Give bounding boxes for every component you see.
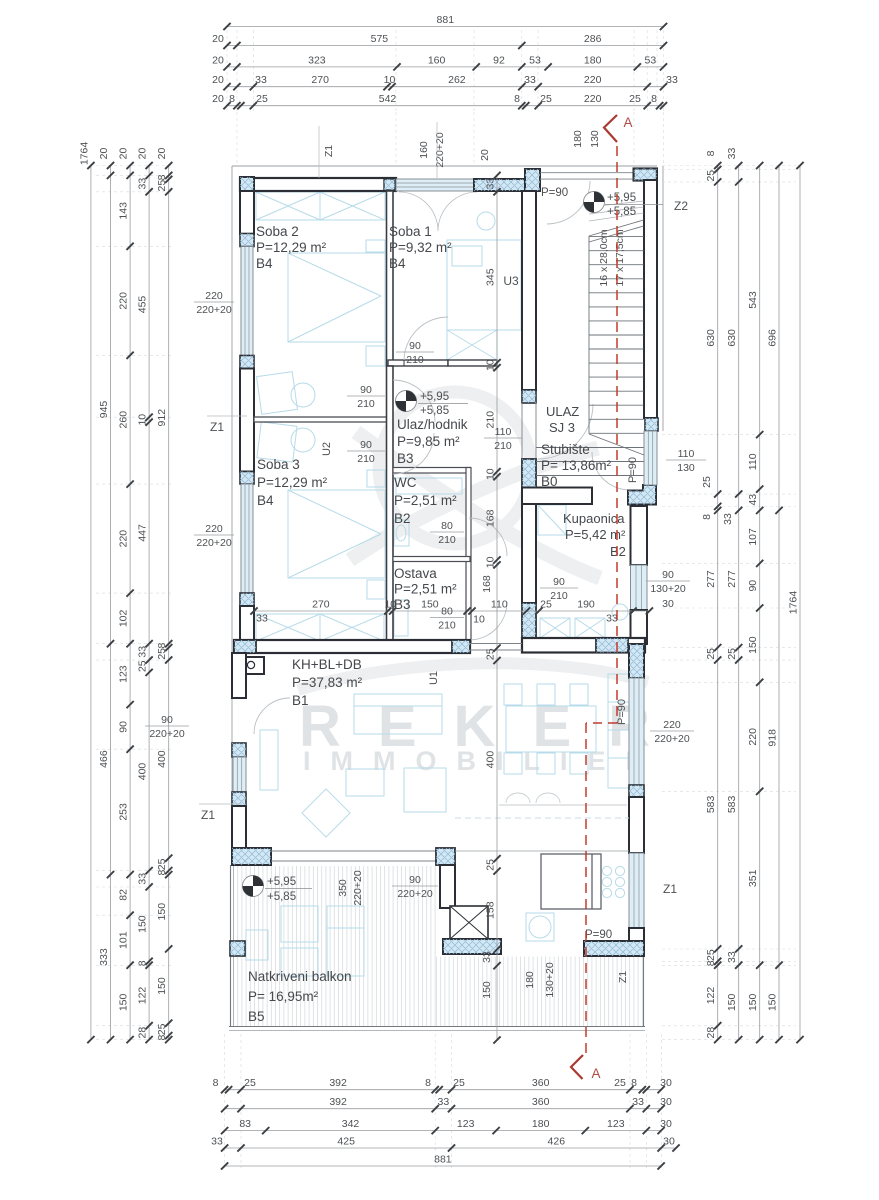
svg-text:+5,95: +5,95: [267, 876, 296, 888]
svg-text:30: 30: [660, 1096, 672, 1108]
terrace header line: [455, 850, 629, 852]
top wall soba2 north: [240, 178, 396, 191]
dimension chain bottom row2: [221, 1096, 672, 1112]
corridor opening U1 threshold: [470, 643, 522, 645]
dining table and chairs: [504, 684, 596, 774]
kupaonica fixtures: [538, 505, 628, 638]
svg-text:150: 150: [118, 993, 130, 1011]
window Z1 160 top soba1: [396, 179, 474, 191]
stair NE corner block: [634, 169, 657, 181]
svg-text:180: 180: [584, 54, 602, 66]
svg-text:B1: B1: [292, 693, 309, 708]
stair door arc into stair: [538, 404, 593, 459]
stair door threshold: [521, 403, 523, 459]
svg-text:447: 447: [137, 524, 149, 542]
dimension chain left col3: [118, 148, 134, 1044]
east wall living lower: [629, 797, 644, 853]
svg-text:25: 25: [156, 1023, 168, 1035]
soba2 armchairs: [257, 372, 315, 415]
svg-text:400: 400: [156, 750, 168, 768]
svg-text:8: 8: [701, 514, 713, 520]
soba2 door arc: [393, 380, 435, 422]
soba3 wardrobe bottom: [256, 614, 384, 641]
svg-text:Natkriveni balkon: Natkriveni balkon: [248, 969, 352, 984]
svg-text:53: 53: [645, 54, 657, 66]
svg-text:210: 210: [357, 453, 375, 465]
svg-text:U2: U2: [321, 442, 333, 456]
svg-text:Z2: Z2: [674, 199, 688, 213]
svg-text:8: 8: [156, 1035, 168, 1041]
svg-text:Soba 1: Soba 1: [389, 224, 432, 239]
balcony deck hatch: [234, 866, 643, 1026]
living sofa: [346, 694, 446, 812]
svg-text:A: A: [591, 1066, 600, 1081]
svg-text:90: 90: [360, 439, 372, 451]
svg-text:168: 168: [481, 575, 493, 593]
svg-text:270: 270: [311, 74, 329, 86]
svg-text:P=37,83 m²: P=37,83 m²: [292, 675, 363, 690]
svg-text:92: 92: [493, 54, 505, 66]
west wall block below soba2 window: [240, 356, 254, 369]
svg-text:130: 130: [677, 462, 695, 474]
svg-text:20: 20: [118, 148, 130, 160]
dimension chain top row5: [212, 93, 667, 109]
east wall living bottom piece: [629, 928, 644, 941]
svg-text:P=90: P=90: [616, 699, 628, 725]
svg-text:20: 20: [98, 148, 110, 160]
wc ostava east wall: [466, 468, 471, 644]
svg-text:25: 25: [485, 648, 497, 660]
svg-text:345: 345: [485, 268, 497, 286]
svg-text:20: 20: [212, 93, 224, 105]
svg-text:260: 260: [118, 411, 130, 429]
svg-text:Ostava: Ostava: [394, 566, 437, 581]
extension lines right: [662, 166, 796, 1040]
svg-text:10: 10: [473, 614, 485, 626]
svg-text:ULAZ: ULAZ: [546, 404, 579, 419]
soba1 bed: [447, 212, 521, 330]
kupaonica west wall: [522, 504, 536, 603]
stair south band to kupaonica: [522, 488, 592, 505]
svg-text:123: 123: [607, 1118, 625, 1130]
soba1 door arc: [404, 317, 448, 361]
balcony sliding door sill: [271, 850, 436, 852]
soba3 bed: [288, 470, 385, 599]
balcony jut x-brace box: [450, 906, 488, 939]
svg-text:P=2,51 m²: P=2,51 m²: [394, 493, 457, 508]
svg-text:881: 881: [437, 14, 455, 26]
living west wall block1: [232, 743, 246, 757]
svg-text:90: 90: [409, 874, 421, 886]
svg-text:+5,95: +5,95: [420, 391, 449, 403]
svg-text:Z1: Z1: [210, 420, 224, 434]
svg-text:918: 918: [767, 729, 779, 747]
svg-text:B4: B4: [256, 256, 273, 271]
svg-text:455: 455: [137, 296, 149, 314]
extension lines top: [227, 30, 664, 163]
svg-text:Z1: Z1: [663, 882, 677, 896]
dimension chain bottom row5 total 881: [221, 1154, 665, 1170]
svg-text:143: 143: [118, 202, 130, 220]
dimension chain top row2: [212, 33, 667, 49]
svg-text:+5,85: +5,85: [607, 206, 636, 218]
svg-text:B4: B4: [257, 493, 274, 508]
west wall block above soba3 window: [240, 472, 254, 485]
svg-text:33: 33: [255, 74, 267, 86]
west wall solid top: [240, 191, 254, 234]
svg-text:150: 150: [156, 903, 168, 921]
east window 220 living: [629, 678, 644, 785]
balcony outline: [229, 865, 645, 1031]
svg-text:210: 210: [438, 620, 456, 632]
svg-text:583: 583: [726, 795, 738, 813]
svg-text:123: 123: [457, 1118, 475, 1130]
svg-text:25: 25: [614, 1077, 626, 1089]
svg-text:102: 102: [118, 609, 130, 627]
svg-text:33: 33: [256, 613, 268, 625]
svg-text:25: 25: [701, 476, 713, 488]
svg-text:696: 696: [767, 329, 779, 347]
dimension chain top row3: [212, 54, 667, 70]
svg-text:466: 466: [98, 750, 110, 768]
soba3 door arc: [393, 433, 434, 474]
interior chain horizontal y611: [250, 599, 653, 626]
svg-text:110: 110: [678, 448, 695, 460]
svg-text:1764: 1764: [78, 142, 90, 166]
svg-text:28: 28: [705, 1027, 717, 1039]
stair break line: [589, 226, 644, 242]
svg-text:U1: U1: [428, 671, 440, 685]
kitchen bar chairs circles: [602, 866, 624, 897]
svg-text:150: 150: [747, 993, 759, 1011]
svg-text:122: 122: [137, 987, 149, 1005]
dimension chain left col4: [137, 148, 153, 1044]
svg-text:P=12,29 m²: P=12,29 m²: [257, 475, 328, 490]
roof eave line left: [231, 166, 233, 848]
svg-text:575: 575: [371, 33, 389, 45]
svg-text:P= 16,95m²: P= 16,95m²: [248, 989, 319, 1004]
svg-text:20: 20: [212, 74, 224, 86]
stair upper flight lines: [589, 201, 644, 207]
wall wc block west side: [387, 366, 394, 643]
balcony south band east with door: [584, 941, 644, 956]
svg-text:25: 25: [453, 1077, 465, 1089]
roof eave line top: [232, 165, 657, 167]
svg-text:150: 150: [421, 599, 439, 611]
svg-text:25: 25: [256, 93, 268, 105]
terrace round table: [526, 913, 554, 941]
svg-text:10: 10: [485, 359, 497, 371]
soba3 armchairs: [257, 422, 315, 462]
svg-text:25: 25: [705, 949, 717, 961]
svg-text:158: 158: [485, 901, 497, 919]
soba1 south wall east part: [448, 360, 497, 366]
svg-text:220: 220: [663, 719, 681, 731]
kupaonica door arc: [592, 452, 630, 490]
svg-text:30: 30: [663, 1136, 675, 1148]
wc north wall: [393, 468, 470, 474]
svg-text:P=90: P=90: [627, 457, 639, 483]
svg-text:+5,95: +5,95: [607, 192, 636, 204]
svg-text:110: 110: [747, 453, 759, 470]
east wall small block: [629, 785, 644, 797]
dimension chain right col1: [701, 150, 721, 1043]
svg-text:33: 33: [726, 951, 738, 963]
svg-text:190: 190: [577, 599, 595, 611]
west wall block below soba3 window: [240, 593, 254, 606]
svg-text:101: 101: [118, 931, 130, 949]
svg-text:33: 33: [438, 1096, 450, 1108]
svg-text:150: 150: [481, 981, 493, 999]
wc ostava separator wall: [393, 557, 470, 562]
svg-text:P=12,29 m²: P=12,29 m²: [256, 240, 327, 255]
svg-text:16 x 28,0cm: 16 x 28,0cm: [598, 229, 610, 286]
ostava shelf: [394, 600, 408, 636]
svg-text:33: 33: [722, 513, 734, 525]
extension lines left: [96, 166, 172, 1040]
svg-text:8: 8: [156, 870, 168, 876]
svg-text:168: 168: [485, 509, 497, 527]
svg-text:30: 30: [660, 1077, 672, 1089]
svg-text:25: 25: [244, 1077, 256, 1089]
svg-text:8: 8: [156, 643, 168, 649]
svg-text:20: 20: [212, 33, 224, 45]
dimension chain left col5: [156, 148, 172, 1044]
svg-text:80: 80: [441, 606, 453, 618]
svg-text:400: 400: [485, 751, 497, 769]
svg-text:30: 30: [662, 598, 674, 610]
svg-text:881: 881: [434, 1154, 452, 1166]
svg-text:33: 33: [666, 74, 678, 86]
svg-text:8: 8: [705, 150, 717, 156]
top wall hatched band east of window: [474, 179, 525, 191]
svg-text:20: 20: [479, 149, 491, 161]
svg-text:25: 25: [137, 660, 149, 672]
kitchen island: [541, 854, 601, 909]
roof eave line right: [662, 166, 664, 431]
soba1 south wall: [388, 360, 448, 366]
svg-text:583: 583: [705, 795, 717, 813]
living south wall block SW: [232, 848, 271, 865]
svg-text:277: 277: [705, 570, 717, 588]
svg-text:150: 150: [747, 636, 759, 654]
kupaonica east wall lower: [631, 610, 648, 644]
svg-text:210: 210: [406, 354, 424, 366]
svg-text:10: 10: [485, 468, 497, 480]
balcony jut foot block: [443, 939, 501, 954]
svg-text:33: 33: [137, 178, 149, 190]
kupaonica east wall upper: [631, 506, 648, 565]
svg-text:220+20: 220+20: [196, 304, 231, 316]
svg-text:90: 90: [360, 384, 372, 396]
dimension chain right col5 total 1764: [788, 162, 804, 1043]
svg-text:10: 10: [384, 74, 396, 86]
svg-text:180: 180: [572, 130, 584, 148]
extension lines bottom: [225, 1034, 662, 1168]
svg-text:Ulaz/hodnik: Ulaz/hodnik: [397, 417, 468, 432]
svg-text:130+20: 130+20: [544, 962, 556, 997]
svg-text:25: 25: [485, 859, 497, 871]
dimension chain right col3: [747, 162, 763, 1043]
soba1 wardrobe: [447, 330, 497, 360]
terrace roof dashed line: [455, 817, 629, 819]
svg-text:150: 150: [726, 993, 738, 1011]
svg-text:33: 33: [726, 148, 738, 160]
svg-text:220: 220: [118, 530, 130, 548]
svg-text:P=2,51 m²: P=2,51 m²: [394, 582, 457, 597]
dimension chain right col4: [767, 162, 783, 1043]
svg-text:542: 542: [379, 93, 397, 105]
svg-text:630: 630: [705, 329, 717, 347]
svg-text:150: 150: [156, 977, 168, 995]
living west wall block2: [232, 792, 246, 806]
svg-text:8: 8: [213, 1077, 219, 1089]
svg-text:KH+BL+DB: KH+BL+DB: [292, 657, 362, 672]
svg-text:400: 400: [137, 763, 149, 781]
casement arcs soba1 window: [399, 192, 477, 231]
svg-text:P=90: P=90: [541, 187, 568, 199]
svg-text:Soba 2: Soba 2: [256, 224, 299, 239]
svg-text:220+20: 220+20: [654, 733, 689, 745]
svg-text:33: 33: [137, 873, 149, 885]
elevation marker hallway: [396, 391, 417, 412]
svg-text:253: 253: [118, 803, 130, 821]
svg-text:43: 43: [747, 494, 759, 506]
svg-text:912: 912: [156, 409, 168, 427]
svg-text:Z1: Z1: [323, 145, 335, 157]
stair east window 110: [644, 431, 657, 485]
svg-text:25: 25: [629, 93, 641, 105]
svg-text:U3: U3: [503, 274, 519, 288]
stair east wall: [644, 180, 657, 418]
svg-text:90: 90: [161, 714, 173, 726]
soba2 bed: [288, 240, 385, 366]
svg-text:90: 90: [747, 580, 759, 592]
svg-text:25: 25: [726, 648, 738, 660]
svg-text:543: 543: [747, 291, 759, 309]
svg-text:8: 8: [631, 1077, 637, 1089]
svg-text:P= 13,86m²: P= 13,86m²: [541, 458, 612, 473]
svg-text:360: 360: [532, 1077, 550, 1089]
svg-text:8: 8: [705, 960, 717, 966]
svg-text:277: 277: [726, 570, 738, 588]
svg-text:83: 83: [239, 1118, 251, 1130]
west wall upper piece with corner: [240, 177, 254, 194]
leader Z1 west2: [199, 803, 242, 805]
west wall solid soba3 bottom: [240, 606, 254, 644]
svg-text:160: 160: [428, 54, 446, 66]
svg-text:110: 110: [495, 426, 512, 438]
window west soba2: [241, 247, 253, 356]
svg-text:+5,85: +5,85: [420, 405, 449, 417]
svg-text:WC: WC: [394, 475, 417, 490]
svg-text:630: 630: [726, 329, 738, 347]
svg-text:210: 210: [438, 534, 456, 546]
svg-text:33: 33: [524, 74, 536, 86]
svg-text:220: 220: [584, 93, 602, 105]
svg-text:351: 351: [747, 869, 759, 887]
wc door arc: [469, 518, 507, 556]
svg-text:160: 160: [418, 141, 430, 159]
svg-text:Z1: Z1: [617, 971, 629, 983]
svg-text:130+20: 130+20: [650, 583, 685, 595]
svg-text:90: 90: [118, 721, 130, 733]
svg-text:945: 945: [98, 401, 110, 419]
svg-text:220+20: 220+20: [397, 888, 432, 900]
svg-text:33: 33: [632, 1096, 644, 1108]
east window Z1 living: [629, 853, 644, 928]
svg-text:210: 210: [357, 398, 375, 410]
svg-text:P=9,32 m²: P=9,32 m²: [389, 240, 452, 255]
stair west wall block1: [522, 390, 536, 403]
svg-text:33: 33: [481, 951, 493, 963]
interior chain vertical x497: [481, 172, 501, 1044]
leader line Z1 top: [318, 126, 320, 178]
living west door arc: [254, 698, 290, 734]
elevation marker balcony: [243, 876, 264, 897]
svg-text:25: 25: [156, 648, 168, 660]
top wall soba2 end block east: [384, 179, 395, 190]
elevation marker stair: [584, 192, 605, 213]
svg-text:20: 20: [137, 148, 149, 160]
svg-text:53: 53: [529, 54, 541, 66]
svg-text:1764: 1764: [788, 591, 800, 615]
svg-text:33: 33: [211, 1136, 223, 1148]
stair west wall upper: [522, 191, 536, 390]
svg-text:333: 333: [98, 948, 110, 966]
leader Z1 west1: [207, 415, 247, 417]
svg-text:270: 270: [312, 599, 330, 611]
svg-text:Kupaonica: Kupaonica: [563, 511, 625, 526]
svg-text:220: 220: [205, 523, 223, 535]
svg-text:150: 150: [137, 915, 149, 933]
svg-text:B2: B2: [394, 511, 411, 526]
dimension chain left col1 total 1764: [78, 142, 94, 1044]
dimension chain right col2: [722, 148, 742, 1044]
svg-text:220+20: 220+20: [434, 132, 446, 167]
svg-text:25: 25: [705, 170, 717, 182]
svg-text:8: 8: [229, 93, 235, 105]
svg-text:A: A: [623, 115, 632, 130]
svg-text:17 x 17,5cm: 17 x 17,5cm: [614, 229, 626, 286]
dimension chain bottom row3: [221, 1118, 672, 1134]
svg-text:90: 90: [409, 340, 421, 352]
svg-text:180: 180: [524, 971, 536, 989]
svg-text:286: 286: [584, 33, 602, 45]
svg-text:P=9,85 m²: P=9,85 m²: [397, 434, 460, 449]
section line A-A red dashed: [571, 115, 617, 1079]
svg-text:80: 80: [441, 520, 453, 532]
balcony loungers: [246, 906, 364, 976]
svg-text:425: 425: [337, 1136, 355, 1148]
living west window: [233, 757, 246, 792]
wc fixtures: [394, 478, 462, 546]
svg-text:130: 130: [589, 130, 601, 148]
window west soba3: [241, 484, 253, 593]
svg-text:210: 210: [494, 440, 512, 452]
svg-text:122: 122: [705, 987, 717, 1005]
svg-text:B5: B5: [248, 1009, 265, 1024]
stair west top block: [525, 169, 540, 191]
svg-text:262: 262: [448, 74, 466, 86]
svg-text:B3: B3: [397, 451, 414, 466]
svg-text:Stubište: Stubište: [541, 442, 590, 457]
svg-text:350: 350: [337, 879, 349, 897]
svg-text:90: 90: [553, 576, 565, 588]
svg-text:220: 220: [584, 74, 602, 86]
kupaonica west wall block lower: [522, 603, 536, 648]
entrance threshold lines: [540, 172, 634, 174]
